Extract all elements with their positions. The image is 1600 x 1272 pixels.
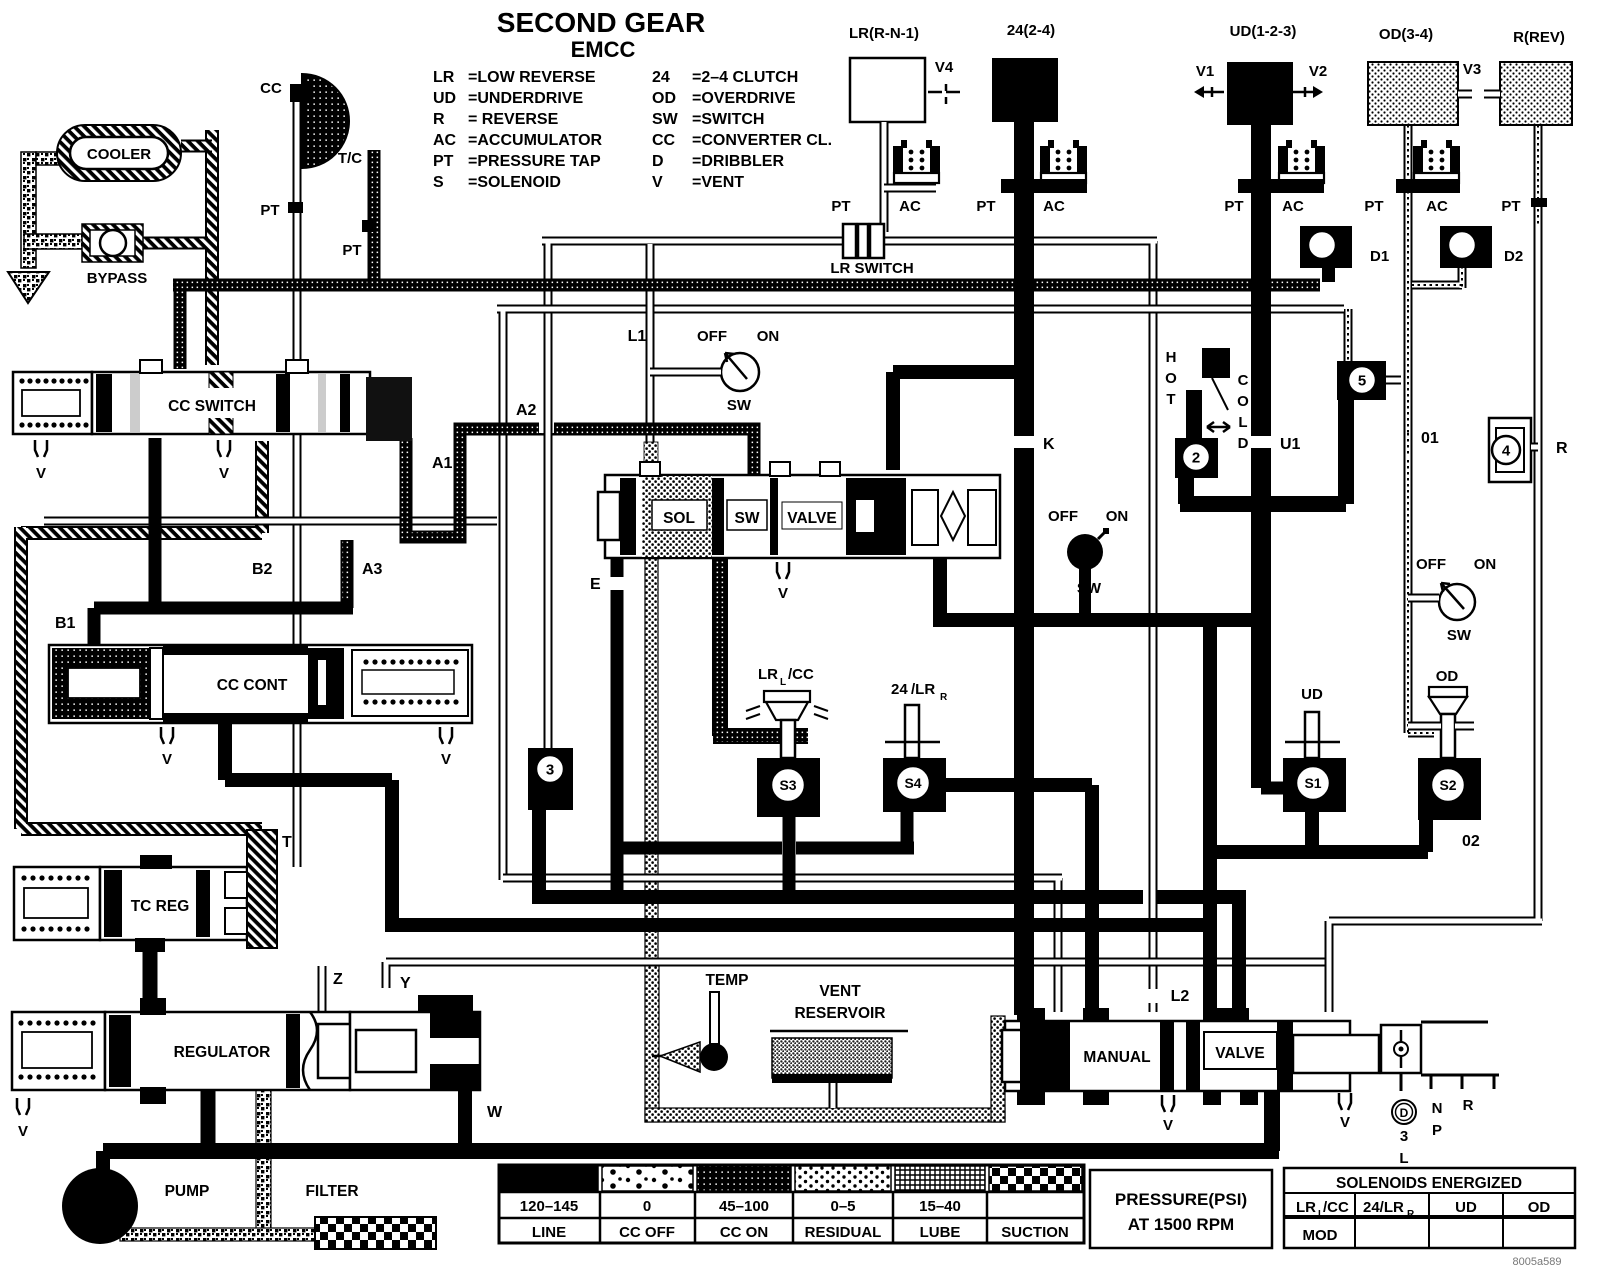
svg-text:L: L — [1238, 414, 1247, 431]
svg-text:MOD: MOD — [1303, 1227, 1338, 1244]
vent below cc switch — [35, 440, 47, 457]
wire A2 rail — [497, 309, 1344, 880]
bypass drain arrow — [8, 272, 49, 303]
svg-text:CC CONT: CC CONT — [217, 677, 288, 694]
dribbler D1 — [1300, 226, 1352, 268]
svg-text:TEMP: TEMP — [705, 972, 748, 989]
svg-text:24/LR: 24/LR — [1363, 1199, 1404, 1216]
svg-text:AC: AC — [433, 132, 457, 149]
svg-text:=2–4 CLUTCH: =2–4 CLUTCH — [692, 69, 798, 86]
svg-text:PT: PT — [342, 242, 361, 259]
svg-text:D: D — [1238, 435, 1249, 452]
svg-text:H: H — [1166, 349, 1177, 366]
svg-text:OD: OD — [1528, 1199, 1551, 1216]
svg-text:D: D — [652, 153, 664, 170]
svg-text:V1: V1 — [1196, 63, 1214, 80]
svg-text:EMCC: EMCC — [571, 37, 636, 62]
svg-text:BYPASS: BYPASS — [87, 270, 148, 287]
svg-text:E: E — [590, 576, 601, 593]
svg-text:PRESSURE(PSI): PRESSURE(PSI) — [1115, 1190, 1247, 1209]
wire junction repaints — [544, 415, 553, 437]
wire valve outlet bus — [933, 556, 1261, 620]
tc reg valve — [14, 830, 277, 952]
svg-text:=CONVERTER CL.: =CONVERTER CL. — [692, 132, 832, 149]
svg-text:PT: PT — [976, 198, 995, 215]
svg-text:02: 02 — [1462, 833, 1480, 850]
svg-text:Z: Z — [333, 971, 343, 988]
svg-text:SOL: SOL — [663, 510, 695, 527]
svg-text:PT: PT — [433, 153, 454, 170]
wire thermal valve path — [1180, 396, 1346, 504]
wire L line from node 3 — [532, 802, 1246, 1015]
cc cont valve — [49, 645, 472, 723]
svg-text:MANUAL: MANUAL — [1083, 1049, 1150, 1066]
svg-text:PUMP: PUMP — [165, 1183, 210, 1200]
svg-text:K: K — [1043, 436, 1055, 453]
wire 01 line — [1408, 310, 1434, 733]
svg-text:P: P — [1432, 1122, 1442, 1139]
wire cc-cont to manual — [225, 721, 1210, 925]
wire cc-switch lower rail — [44, 517, 497, 526]
svg-text:SW: SW — [1077, 580, 1102, 597]
svg-text:CC: CC — [260, 80, 282, 97]
accumulator LR — [893, 140, 940, 183]
dribbler D2 — [1440, 226, 1492, 268]
wire E line — [611, 556, 624, 897]
svg-text:=OVERDRIVE: =OVERDRIVE — [692, 90, 796, 107]
regulator valve — [12, 998, 480, 1104]
svg-text:FILTER: FILTER — [305, 1183, 358, 1200]
svg-text:SW: SW — [735, 510, 760, 527]
svg-text:VALVE: VALVE — [1215, 1045, 1264, 1062]
svg-text:24: 24 — [652, 69, 670, 86]
cc switch valve — [13, 360, 412, 441]
svg-text:3: 3 — [1400, 1128, 1408, 1145]
svg-text:V: V — [1163, 1117, 1173, 1134]
svg-text:0: 0 — [643, 1198, 651, 1215]
svg-text:UD: UD — [1301, 686, 1323, 703]
svg-text:R: R — [1463, 1097, 1474, 1114]
svg-text:AC: AC — [899, 198, 921, 215]
node 2 — [1175, 438, 1218, 478]
solenoid switch valve — [598, 442, 1000, 558]
svg-text:PT: PT — [260, 202, 279, 219]
svg-text:L1: L1 — [628, 328, 647, 345]
pressure psi box — [1090, 1170, 1272, 1248]
svg-text:=PRESSURE TAP: =PRESSURE TAP — [468, 153, 601, 170]
svg-text:01: 01 — [1421, 430, 1439, 447]
svg-text:4: 4 — [1502, 442, 1511, 459]
svg-text:V4: V4 — [935, 59, 954, 76]
svg-text:COOLER: COOLER — [87, 146, 151, 163]
wire R return line — [1329, 226, 1542, 1012]
node break ticks — [1012, 436, 1036, 448]
svg-text:=SWITCH: =SWITCH — [692, 111, 764, 128]
svg-text:LR SWITCH: LR SWITCH — [830, 260, 913, 277]
svg-text:R: R — [1556, 440, 1568, 457]
svg-text:LR: LR — [1296, 1199, 1316, 1216]
wire Z stub — [318, 966, 327, 1012]
svg-text:V: V — [1340, 1114, 1350, 1131]
wire t/c feed — [368, 150, 381, 285]
node 5 — [1337, 361, 1386, 400]
svg-text:A2: A2 — [516, 402, 537, 419]
wire CC / B2 line — [293, 98, 302, 867]
wire regulator outlet — [201, 1090, 216, 1151]
LR switch — [843, 224, 856, 258]
svg-text:V: V — [441, 751, 451, 768]
wire cooler circuit — [205, 130, 219, 365]
svg-text:L: L — [1399, 1150, 1408, 1167]
svg-text:S4: S4 — [904, 775, 921, 791]
accumulator OD — [1413, 140, 1460, 183]
vent reservoir walls — [645, 556, 658, 966]
wire S3 feed — [713, 556, 808, 736]
svg-text:V: V — [778, 585, 788, 602]
svg-text:8005a589: 8005a589 — [1513, 1256, 1562, 1268]
svg-text:3: 3 — [546, 761, 554, 778]
node 3 — [528, 748, 573, 810]
svg-text:AC: AC — [1043, 198, 1065, 215]
svg-text:N: N — [1432, 1100, 1443, 1117]
manual valve — [1002, 1008, 1379, 1105]
rooster comb box — [1381, 1025, 1421, 1073]
wire L1 drop — [646, 244, 655, 478]
svg-text:D1: D1 — [1370, 248, 1389, 265]
svg-text:W: W — [487, 1104, 503, 1121]
svg-text:24(2-4): 24(2-4) — [1007, 22, 1055, 39]
svg-text:L: L — [780, 677, 786, 688]
svg-text:VALVE: VALVE — [787, 510, 836, 527]
wire switch valve feed — [893, 372, 1024, 470]
svg-text:SUCTION: SUCTION — [1001, 1224, 1069, 1241]
svg-text:= REVERSE: = REVERSE — [468, 111, 559, 128]
wire OD dotted line — [1404, 125, 1413, 310]
svg-text:D2: D2 — [1504, 248, 1523, 265]
svg-text:A3: A3 — [362, 561, 383, 578]
node 4 — [1489, 418, 1531, 482]
svg-text:/CC: /CC — [1323, 1199, 1349, 1216]
svg-text:120–145: 120–145 — [520, 1198, 578, 1215]
svg-text:/LR: /LR — [911, 681, 935, 698]
svg-text:R(REV): R(REV) — [1513, 29, 1565, 46]
svg-text:V: V — [652, 174, 663, 191]
svg-text:V: V — [219, 465, 229, 482]
cooler — [57, 125, 181, 181]
svg-text:V2: V2 — [1309, 63, 1327, 80]
svg-text:LUBE: LUBE — [920, 1224, 961, 1241]
svg-text:OFF: OFF — [1416, 556, 1446, 573]
svg-text:S2: S2 — [1439, 777, 1456, 793]
wire cooler inlet — [21, 152, 36, 268]
wire 24 clutch K line — [1014, 122, 1034, 1015]
svg-text:PT: PT — [1364, 198, 1383, 215]
svg-text:L2: L2 — [1171, 988, 1190, 1005]
svg-text:SW: SW — [1447, 627, 1472, 644]
svg-text:PT: PT — [1224, 198, 1243, 215]
svg-text:LR(R-N-1): LR(R-N-1) — [849, 25, 919, 42]
svg-text:SECOND GEAR: SECOND GEAR — [497, 7, 705, 38]
svg-text:SW: SW — [652, 111, 679, 128]
svg-text:OFF: OFF — [697, 328, 727, 345]
svg-text:A1: A1 — [432, 455, 453, 472]
pressure legend table — [499, 1165, 1084, 1243]
svg-text:CC OFF: CC OFF — [619, 1224, 675, 1241]
svg-text:VENT: VENT — [819, 983, 861, 1000]
pump — [62, 1168, 138, 1244]
svg-text:O: O — [1165, 370, 1177, 387]
svg-text:24: 24 — [891, 681, 908, 698]
svg-text:C: C — [1238, 372, 1249, 389]
svg-text:OD: OD — [1436, 668, 1459, 685]
svg-text:LR: LR — [433, 69, 455, 86]
svg-text:V3: V3 — [1463, 61, 1481, 78]
wire A1 line — [406, 429, 754, 537]
wire pump pressure bus — [103, 1143, 1279, 1159]
svg-text:CC SWITCH: CC SWITCH — [168, 398, 256, 415]
svg-text:ON: ON — [1106, 508, 1129, 525]
svg-text:2: 2 — [1192, 449, 1200, 466]
svg-text:OD: OD — [652, 90, 676, 107]
svg-text:AC: AC — [1426, 198, 1448, 215]
svg-text:ON: ON — [757, 328, 780, 345]
svg-text:S1: S1 — [1304, 775, 1321, 791]
svg-text:PT: PT — [1501, 198, 1520, 215]
accumulator 24 — [1040, 140, 1087, 183]
svg-text:B2: B2 — [252, 561, 273, 578]
svg-text:OD(3-4): OD(3-4) — [1379, 26, 1433, 43]
svg-text:=ACCUMULATOR: =ACCUMULATOR — [468, 132, 603, 149]
wire 02 bus — [1203, 812, 1428, 852]
svg-text:S3: S3 — [779, 777, 796, 793]
wire D2 dotted link — [1412, 266, 1462, 288]
solenoids energized table — [1284, 1168, 1575, 1248]
svg-text:UD: UD — [1455, 1199, 1477, 1216]
svg-text:=DRIBBLER: =DRIBBLER — [692, 153, 784, 170]
svg-text:O: O — [1237, 393, 1249, 410]
gear position labels — [1392, 1100, 1416, 1124]
accumulator UD — [1278, 140, 1325, 183]
svg-text:SW: SW — [727, 397, 752, 414]
svg-text:0–5: 0–5 — [830, 1198, 855, 1215]
svg-text:/CC: /CC — [788, 666, 814, 683]
svg-text:RESERVOIR: RESERVOIR — [794, 1005, 885, 1022]
svg-text:15–40: 15–40 — [919, 1198, 961, 1215]
svg-text:T: T — [282, 834, 292, 851]
svg-text:RESIDUAL: RESIDUAL — [805, 1224, 882, 1241]
wire suction line — [120, 1228, 320, 1241]
svg-text:V: V — [18, 1123, 28, 1140]
svg-text:=SOLENOID: =SOLENOID — [468, 174, 561, 191]
wire converter hatched return — [21, 441, 262, 829]
svg-text:OFF: OFF — [1048, 508, 1078, 525]
svg-text:5: 5 — [1358, 372, 1366, 389]
svg-text:PT: PT — [831, 198, 850, 215]
wire regulator drain — [256, 1090, 271, 1236]
svg-text:45–100: 45–100 — [719, 1198, 769, 1215]
svg-text:UD(1-2-3): UD(1-2-3) — [1230, 23, 1297, 40]
wire 848 bus — [617, 812, 914, 848]
svg-text:S: S — [433, 174, 444, 191]
wire regulator outlet — [201, 1090, 216, 1151]
svg-text:REGULATOR: REGULATOR — [174, 1044, 271, 1061]
svg-text:SOLENOIDS ENERGIZED: SOLENOIDS ENERGIZED — [1336, 1175, 1522, 1192]
svg-text:TC REG: TC REG — [131, 898, 190, 915]
svg-text:=VENT: =VENT — [692, 174, 744, 191]
wire UD U1 line — [1251, 125, 1271, 788]
svg-text:UD: UD — [433, 90, 456, 107]
svg-text:V: V — [162, 751, 172, 768]
wire tc-reg ports — [143, 940, 158, 1014]
bypass valve — [82, 224, 143, 262]
wire main line-pressure bus — [173, 279, 1320, 292]
svg-text:V: V — [36, 465, 46, 482]
svg-text:U1: U1 — [1280, 436, 1301, 453]
svg-text:D: D — [1400, 1106, 1409, 1120]
svg-text:=LOW REVERSE: =LOW REVERSE — [468, 69, 596, 86]
wire Y line — [386, 962, 1333, 988]
svg-text:R: R — [1407, 1209, 1415, 1220]
wire A3 B1 lines — [149, 438, 162, 608]
svg-text:=UNDERDRIVE: =UNDERDRIVE — [468, 90, 583, 107]
svg-text:LR: LR — [758, 666, 778, 683]
svg-text:T: T — [1166, 391, 1175, 408]
svg-text:T/C: T/C — [338, 150, 362, 167]
svg-text:R: R — [940, 692, 948, 703]
svg-text:Y: Y — [400, 975, 411, 992]
svg-text:R: R — [433, 111, 445, 128]
wire R dotted top — [1534, 125, 1543, 230]
svg-text:AT 1500 RPM: AT 1500 RPM — [1128, 1215, 1234, 1234]
svg-text:LINE: LINE — [532, 1224, 566, 1241]
wire L1 rail — [542, 241, 1157, 1012]
svg-text:AC: AC — [1282, 198, 1304, 215]
svg-text:CC: CC — [652, 132, 676, 149]
svg-text:CC ON: CC ON — [720, 1224, 768, 1241]
wire S4 to manual valve — [946, 785, 1092, 1015]
svg-text:B1: B1 — [55, 615, 76, 632]
svg-text:ON: ON — [1474, 556, 1497, 573]
torque converter T/C — [302, 74, 349, 168]
